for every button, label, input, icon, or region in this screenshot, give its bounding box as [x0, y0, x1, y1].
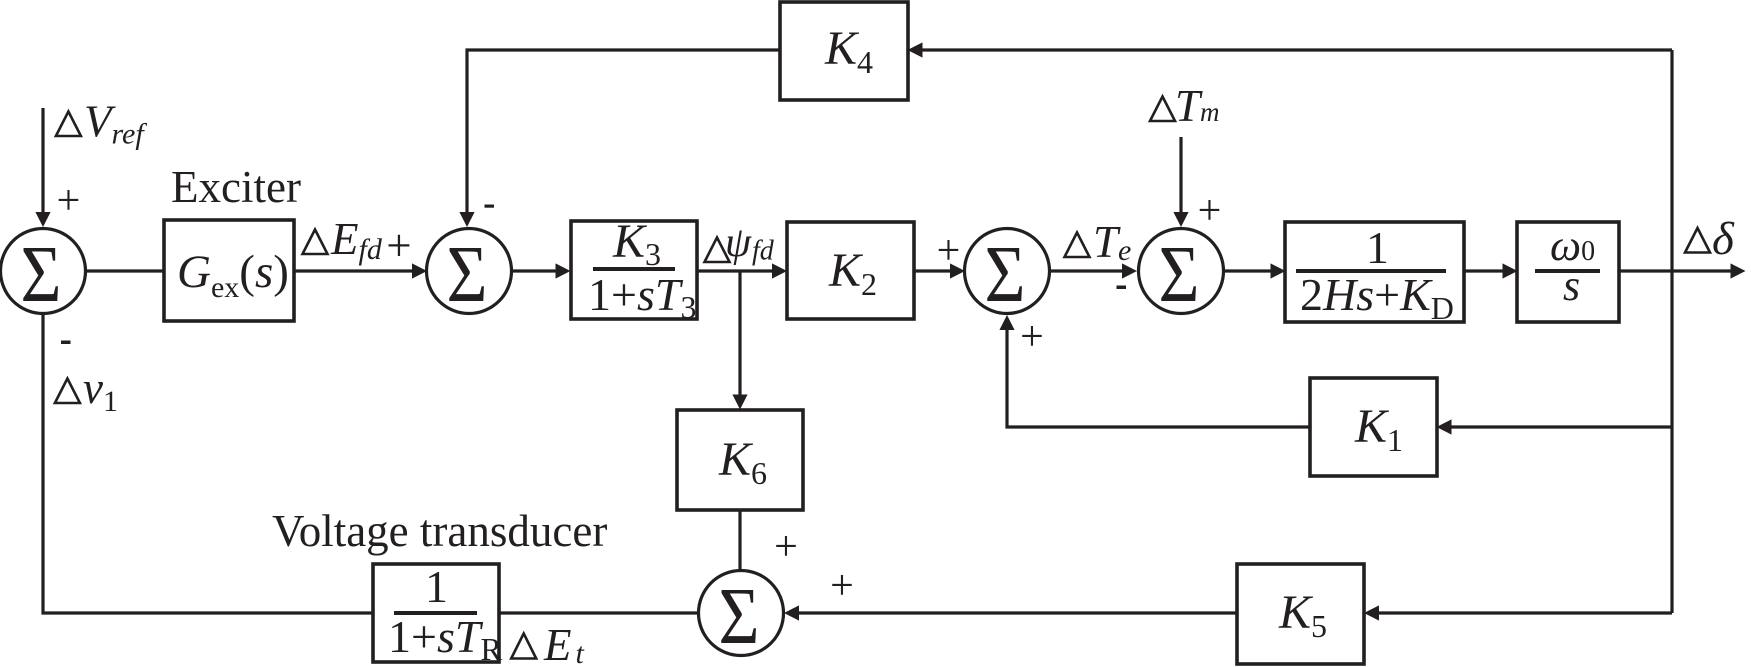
svg-text:v1: v1 — [83, 363, 118, 418]
sign - at S1 bottom — [61, 341, 71, 345]
wire: S4 to inertia block with arrow — [1224, 269, 1274, 272]
svg-text:Tm: Tm — [1175, 81, 1220, 131]
block 1/(1+sTR) voltage transducer — [373, 564, 499, 662]
svg-text:Voltage transducer: Voltage transducer — [272, 506, 607, 556]
svg-text:2Hs+KD: 2Hs+KD — [1300, 269, 1454, 326]
wire: Vref input vertical into S1 top — [41, 108, 44, 214]
wire: inertia to omega block with arrow — [1464, 269, 1505, 272]
wire: K2 to S3 with arrow — [914, 269, 952, 272]
svg-text:Efd: Efd — [330, 214, 383, 266]
wire: transducer out to left and up into S1 bottom — [43, 314, 373, 613]
wire: S5 out to transducer — [499, 611, 699, 614]
svg-text:fd: fd — [752, 236, 775, 267]
node label dTe triangle — [1065, 233, 1090, 258]
wire: K1 out left then up into S3 bottom — [1007, 326, 1310, 427]
svg-text:s: s — [1563, 261, 1580, 310]
wire: S2 to K3 with arrow — [512, 269, 559, 272]
block K3/(1+sT3) — [571, 221, 697, 319]
node label dTm triangle — [1150, 97, 1175, 122]
node label dVref triangle — [56, 112, 81, 137]
block K5 — [1237, 564, 1364, 664]
node label dEt triangle — [511, 634, 536, 659]
sign - at S2 top — [485, 205, 495, 208]
svg-text:K3: K3 — [612, 215, 661, 272]
svg-text:ψ: ψ — [725, 220, 752, 266]
wire: K4 output down into S2 top — [467, 50, 780, 214]
svg-text:Σ: Σ — [719, 573, 760, 661]
svg-text:1: 1 — [1366, 222, 1389, 273]
block K6 — [677, 410, 803, 510]
svg-text:Te: Te — [1093, 217, 1131, 267]
wire: feedback vertical line — [1670, 50, 1673, 613]
summing junction S5 — [699, 571, 784, 656]
svg-text:+: + — [1020, 314, 1044, 360]
wire: branch down to K6 — [738, 271, 741, 397]
node label dv1 triangle — [55, 379, 80, 404]
svg-text:K1: K1 — [1354, 400, 1403, 458]
wire: K6 down to S5 top — [738, 510, 741, 571]
svg-text:Σ: Σ — [985, 231, 1026, 319]
wire: feedback to K1 right — [1449, 425, 1672, 428]
svg-text:1: 1 — [425, 561, 448, 612]
node label dDelta triangle — [1685, 228, 1710, 253]
wire: feedback into K4 right — [920, 48, 1672, 51]
svg-text:+: + — [774, 524, 798, 570]
wire: S1 to Gex — [86, 269, 165, 272]
wire: Gex to S2 with arrow — [294, 269, 414, 272]
svg-text:δ: δ — [1712, 213, 1735, 265]
wire: K5 out to S5 right with arrow — [796, 611, 1237, 614]
svg-text:+: + — [830, 563, 854, 609]
svg-text:Et: Et — [543, 620, 585, 667]
summing junction S4 — [1139, 229, 1224, 314]
svg-text:+: + — [937, 228, 961, 274]
svg-text:1+sT3: 1+sT3 — [588, 269, 696, 325]
sign - before S4 — [1117, 286, 1127, 290]
svg-text:+: + — [386, 221, 411, 271]
svg-text:Vref: Vref — [84, 97, 147, 151]
svg-text:Exciter: Exciter — [171, 162, 301, 212]
block omega0/s — [1517, 222, 1619, 322]
svg-text:+: + — [57, 178, 81, 224]
svg-text:Gex(s): Gex(s) — [177, 246, 289, 304]
wire: S3 to S4 with arrow — [1050, 269, 1125, 272]
wire: feedback to K5 right — [1376, 611, 1672, 614]
block K4 — [780, 2, 908, 100]
wire: omega out to right edge with arrow — [1619, 269, 1733, 272]
summing junction S3 — [965, 229, 1050, 314]
svg-text:Σ: Σ — [447, 231, 488, 319]
svg-text:1+sTR: 1+sTR — [388, 611, 502, 667]
block K1 — [1310, 378, 1437, 476]
svg-text:K2: K2 — [828, 244, 877, 302]
svg-text:Σ: Σ — [1159, 231, 1200, 319]
block 1/(2Hs+KD) — [1285, 222, 1464, 322]
block K2 — [787, 222, 914, 319]
block Gex(s) exciter — [164, 220, 294, 321]
svg-text:K5: K5 — [1278, 586, 1327, 644]
node label dEfd triangle — [303, 230, 328, 255]
svg-text:K6: K6 — [718, 433, 767, 491]
svg-text:K4: K4 — [824, 22, 873, 80]
wire: Tm input into S4 top — [1179, 137, 1182, 214]
svg-text:Σ: Σ — [21, 231, 62, 319]
svg-text:+: + — [1198, 188, 1222, 234]
summing junction S2 — [427, 229, 512, 314]
node label dPsifd triangle — [705, 238, 730, 263]
summing junction S1 — [1, 229, 86, 314]
wire: K3 to K2 with arrow — [697, 269, 774, 272]
